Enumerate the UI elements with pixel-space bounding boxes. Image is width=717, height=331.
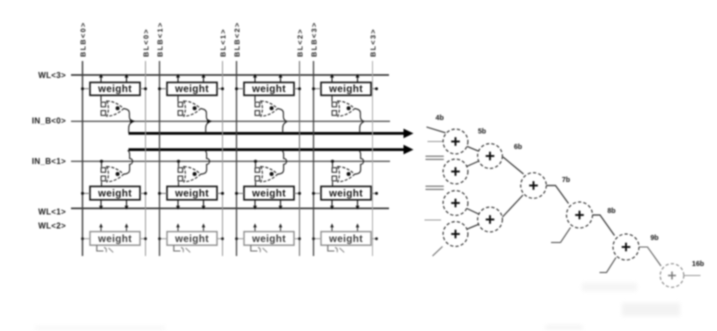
output wire 16b <box>684 275 701 277</box>
adder input diagonal c4 <box>433 247 443 257</box>
ghost smudge 1 <box>582 283 637 291</box>
XOR gate row1 col2 <box>178 95 201 116</box>
wire s2a to s3 <box>503 157 524 174</box>
bitline taps row1 col4 <box>312 87 378 90</box>
weight cell row1 col1 <box>90 82 140 95</box>
adder A3 <box>443 191 468 216</box>
wire c1 to s2a <box>467 146 479 151</box>
adder input stub c4 <box>425 219 442 221</box>
svg-text:weight: weight <box>328 84 363 95</box>
svg-text:IN_B<0>: IN_B<0> <box>32 116 66 125</box>
svg-text:WL<2>: WL<2> <box>38 221 66 230</box>
svg-text:weight: weight <box>97 84 132 95</box>
wire c4 to s2b <box>467 224 479 229</box>
weight cell row3 col4 <box>321 232 371 246</box>
truncated gate hint row3 col1 <box>97 245 113 252</box>
svg-text:5b: 5b <box>478 128 487 136</box>
XOR gate row2 col4 <box>332 161 355 186</box>
adder input stub c1 <box>428 141 443 143</box>
WL stubs row1 col1 <box>99 74 129 83</box>
gate output wire row2 col1 <box>124 150 133 174</box>
adder E1 <box>613 234 639 260</box>
bitline taps row3 col1 <box>81 237 147 240</box>
XOR gate row2 col1 <box>101 161 124 186</box>
accumulate tail s4 <box>551 228 571 243</box>
bitline taps row1 col2 <box>158 87 224 90</box>
wire c3 to s2b <box>467 208 479 214</box>
bit line BL<1> <box>222 61 224 256</box>
bit line BLB<0> <box>82 61 84 256</box>
bit line BLB<3> <box>313 61 315 256</box>
weight cell row3 col2 <box>167 232 217 246</box>
bit line BL<3> <box>372 61 374 256</box>
wire s3 to s4 <box>547 186 569 204</box>
WL stubs row2 col3 <box>253 200 283 210</box>
adder C1 <box>521 173 547 199</box>
WL stubs row1 col2 <box>176 74 206 83</box>
bus arrow 2 <box>129 145 414 155</box>
truncated gate hint row3 col4 <box>328 245 344 252</box>
svg-text:weight: weight <box>174 189 209 200</box>
adder D1 <box>567 202 593 228</box>
svg-text:weight: weight <box>251 234 286 245</box>
svg-text:weight: weight <box>328 189 363 200</box>
WL stubs row3 col3 <box>253 223 282 231</box>
gate output wire row1 col4 <box>355 109 364 133</box>
weight cell row2 col3 <box>244 186 294 199</box>
adder B2 <box>478 207 503 232</box>
wire s4 to s5 <box>593 215 615 236</box>
svg-text:BL<1>: BL<1> <box>218 28 227 57</box>
svg-text:weight: weight <box>174 234 209 245</box>
word line WL<1> <box>71 207 389 209</box>
gate output wire row1 col3 <box>278 109 287 133</box>
svg-text:BL<0>: BL<0> <box>141 28 150 57</box>
svg-text:weight: weight <box>251 84 286 95</box>
weight cell row2 col1 <box>90 186 140 199</box>
wire s2b to s3 <box>503 195 524 217</box>
WL stubs row2 col4 <box>330 200 360 210</box>
bit line BLB<1> <box>159 61 161 256</box>
bitline taps row1 col3 <box>235 87 301 90</box>
weight cell row2 col2 <box>167 186 217 199</box>
adder A4 <box>443 222 468 247</box>
weight cell row1 col2 <box>167 82 217 95</box>
gate output wire row1 col2 <box>201 109 210 133</box>
bitline taps row2 col3 <box>235 192 301 195</box>
IN_B<1> tap dot col2 <box>177 160 180 163</box>
gate output wire row2 col4 <box>355 150 364 174</box>
truncated gate hint row3 col2 <box>174 245 190 252</box>
adder input wire 4b <box>427 127 446 133</box>
WL stubs row2 col2 <box>176 200 206 210</box>
gate output wire row2 col2 <box>201 150 210 174</box>
adder input stubs c2 <box>426 156 444 159</box>
IN_B<1> tap dot col4 <box>331 160 334 163</box>
IN_B<1> tap dot col1 <box>100 160 103 163</box>
truncated gate hint row3 col3 <box>251 245 267 252</box>
XOR gate row2 col3 <box>255 161 278 186</box>
adder B1 <box>478 144 503 169</box>
WL stubs row3 col1 <box>99 223 128 231</box>
svg-text:6b: 6b <box>514 143 523 151</box>
bit line BL<2> <box>299 61 301 256</box>
adder F1 <box>660 264 684 288</box>
bitline taps row2 col1 <box>81 192 147 195</box>
weight cell row3 col3 <box>244 232 294 246</box>
input line IN_B<1> <box>71 160 390 162</box>
weight cell row2 col4 <box>321 186 371 199</box>
bit line BL<0> <box>145 61 147 256</box>
bit line BLB<2> <box>236 61 238 256</box>
weight cell row3 col1 <box>90 232 140 246</box>
ghost smudge 3 <box>545 325 583 330</box>
adder A2 <box>443 159 468 184</box>
adder A1 <box>443 129 468 154</box>
bus arrow 1 <box>129 129 414 139</box>
wire s5 to s6 <box>639 247 661 266</box>
XOR gate row2 col2 <box>178 161 201 186</box>
svg-text:weight: weight <box>97 234 132 245</box>
svg-text:WL<1>: WL<1> <box>38 208 66 217</box>
bitline taps row3 col2 <box>158 237 224 240</box>
svg-text:BLB<3>: BLB<3> <box>309 21 318 57</box>
weight cell row1 col4 <box>321 82 371 95</box>
svg-text:BL<3>: BL<3> <box>368 28 377 57</box>
word line WL<3> <box>71 74 389 76</box>
svg-text:BLB<0>: BLB<0> <box>78 21 87 57</box>
WL stubs row1 col3 <box>253 74 283 83</box>
svg-text:weight: weight <box>251 189 286 200</box>
svg-text:BL<2>: BL<2> <box>295 28 304 57</box>
svg-text:4b: 4b <box>436 114 445 122</box>
ghost smudge 4 <box>35 326 165 330</box>
wire c2 to s2a <box>467 161 479 166</box>
IN_B<1> tap dot col3 <box>254 160 257 163</box>
svg-text:weight: weight <box>328 234 363 245</box>
bitline taps row2 col2 <box>158 192 224 195</box>
svg-text:BLB<2>: BLB<2> <box>232 21 241 57</box>
XOR gate row1 col4 <box>332 95 355 116</box>
WL stubs row1 col4 <box>330 74 360 83</box>
gate output wire row1 col1 <box>124 109 133 133</box>
svg-text:9b: 9b <box>650 234 659 242</box>
svg-text:weight: weight <box>97 189 132 200</box>
input line IN_B<0> <box>71 120 390 122</box>
bitline taps row2 col4 <box>312 192 378 195</box>
svg-text:7b: 7b <box>562 176 571 184</box>
accumulate tail s5 <box>600 258 617 273</box>
ghost smudge 2 <box>622 303 680 316</box>
XOR gate row1 col1 <box>101 95 124 116</box>
weight cell row1 col3 <box>244 82 294 95</box>
gate output wire row2 col3 <box>278 150 287 174</box>
bitline taps row3 col3 <box>235 237 301 240</box>
junction arrow on IN_B<0> col2 <box>207 119 212 123</box>
svg-text:weight: weight <box>174 84 209 95</box>
WL stubs row3 col4 <box>330 223 359 231</box>
svg-text:8b: 8b <box>607 207 616 215</box>
svg-text:BLB<1>: BLB<1> <box>155 21 164 57</box>
svg-text:16b: 16b <box>692 260 705 268</box>
svg-text:WL<3>: WL<3> <box>38 71 66 80</box>
junction arrow on IN_B<0> col1 <box>130 119 135 123</box>
svg-text:IN_B<1>: IN_B<1> <box>32 157 66 166</box>
WL stubs row3 col2 <box>176 223 205 231</box>
adder input stubs c3 <box>426 186 444 189</box>
WL stubs row2 col1 <box>99 200 129 210</box>
XOR gate row1 col3 <box>255 95 278 116</box>
bitline taps row1 col1 <box>81 87 147 90</box>
bitline taps row3 col4 <box>312 237 378 240</box>
